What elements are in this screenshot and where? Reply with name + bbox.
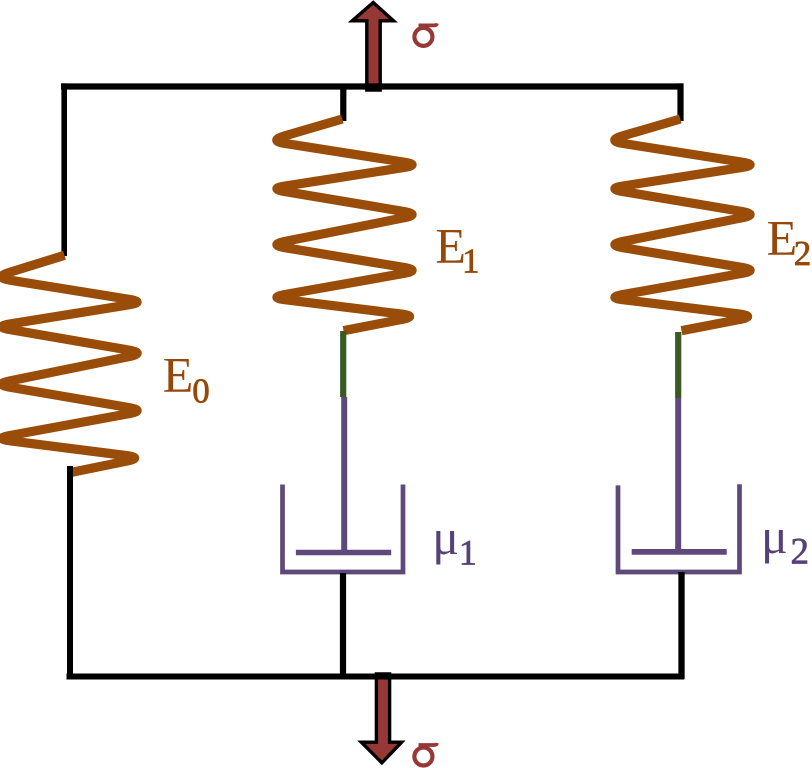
wire middle branch upper xyxy=(340,84,346,121)
svg-text:1: 1 xyxy=(462,241,480,280)
wire left branch lower xyxy=(67,466,73,679)
label E2 xyxy=(767,209,812,273)
svg-text:0: 0 xyxy=(192,372,210,411)
wire bottom bar xyxy=(67,674,685,680)
spring E0 xyxy=(2,255,137,472)
label sigma bottom xyxy=(414,743,437,766)
label sigma top xyxy=(414,23,437,46)
svg-text:μ: μ xyxy=(432,509,459,565)
dashpot rod mu2 xyxy=(675,398,681,552)
label mu2 xyxy=(761,508,809,573)
wire right branch upper xyxy=(677,83,683,121)
green connector right xyxy=(675,332,681,398)
svg-text:1: 1 xyxy=(459,533,477,573)
svg-text:2: 2 xyxy=(791,532,810,573)
label E1 xyxy=(435,218,479,281)
dashpot piston plate mu1 xyxy=(296,550,391,556)
green connector middle xyxy=(340,331,346,397)
spring E1 xyxy=(277,119,412,331)
dashpot cup mu1 xyxy=(283,485,404,573)
dashpot piston plate mu2 xyxy=(632,549,727,555)
wire right branch lower xyxy=(678,572,684,679)
svg-text:2: 2 xyxy=(794,234,812,273)
label mu1 xyxy=(432,509,477,573)
dashpot cup mu2 xyxy=(618,484,740,572)
wire top bar xyxy=(61,83,684,89)
label E0 xyxy=(163,347,210,411)
svg-text:E: E xyxy=(767,209,798,265)
dashpot rod mu1 xyxy=(341,397,347,553)
top stress arrow xyxy=(352,3,393,91)
svg-text:E: E xyxy=(163,347,194,403)
bottom stress arrow xyxy=(361,674,401,763)
svg-text:μ: μ xyxy=(761,508,788,564)
wire middle branch lower xyxy=(340,573,346,679)
spring E2 xyxy=(615,119,750,331)
wire left branch upper xyxy=(61,83,67,256)
